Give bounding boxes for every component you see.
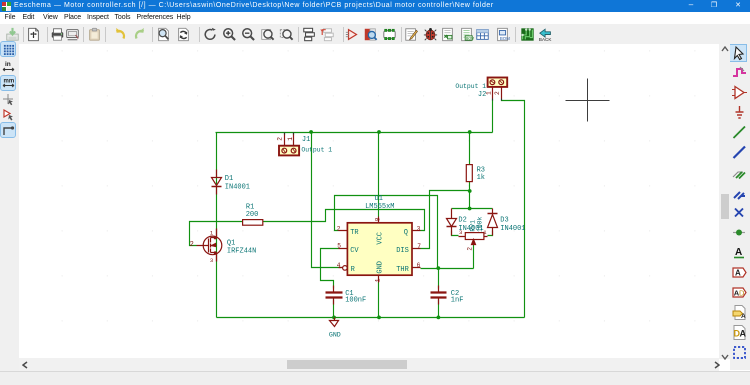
svg-text:2: 2 <box>466 247 473 251</box>
junction D2/D3 rail <box>468 207 472 211</box>
wire C2 branch <box>438 269 440 318</box>
svg-text:2: 2 <box>494 91 501 95</box>
junction R3 bottom <box>468 189 472 193</box>
wire right riser to J2 pin2 <box>502 100 525 318</box>
svg-text:GND: GND <box>377 261 385 274</box>
wire D3 bottom to pot <box>488 231 493 236</box>
svg-text:2: 2 <box>276 137 283 141</box>
diode D2 <box>451 209 453 236</box>
diode D3 <box>492 209 494 236</box>
wire VCC top rail <box>216 132 493 134</box>
wire D2/D3 top rail <box>452 208 493 210</box>
svg-text:1nF: 1nF <box>451 296 464 304</box>
svg-text:LM555xM: LM555xM <box>365 203 394 211</box>
svg-text:5: 5 <box>337 242 341 249</box>
svg-text:Output 1: Output 1 <box>301 146 332 153</box>
canvas <box>19 44 719 358</box>
svg-text:mm: mm <box>4 79 15 85</box>
svg-text:6: 6 <box>417 262 421 269</box>
connector J2 body <box>488 78 508 87</box>
crosshair cursor <box>566 79 610 122</box>
svg-text:2: 2 <box>190 241 194 249</box>
wire R3 branch <box>469 133 471 209</box>
op IC U1 body <box>347 223 412 275</box>
svg-text:3: 3 <box>417 226 421 233</box>
svg-text:DIS: DIS <box>396 247 409 255</box>
svg-text:D: D <box>739 288 745 297</box>
junction GND pin rail <box>377 316 381 320</box>
wire TR to THR junction <box>335 196 438 269</box>
junction C2 ground <box>437 316 441 320</box>
U1 reset bubble <box>343 266 348 271</box>
svg-text:R3: R3 <box>477 166 485 174</box>
connector J2 pins <box>493 87 502 99</box>
wire Q out to R1 <box>263 210 425 231</box>
wire VCC drop to pin8 <box>378 133 380 217</box>
svg-text:D1: D1 <box>225 175 233 183</box>
scrollbars / status <box>719 44 730 359</box>
U1 pin stubs <box>339 217 421 283</box>
junction top rail x469.7 <box>468 130 472 134</box>
svg-text:1k: 1k <box>477 174 485 182</box>
wire THR to pot wiper <box>421 244 474 269</box>
menu bar <box>0 12 750 24</box>
svg-text:4: 4 <box>337 262 341 269</box>
svg-text:7: 7 <box>417 243 421 250</box>
resistor R3 <box>466 165 472 182</box>
capacitor C1 <box>333 286 335 305</box>
svg-text:U1: U1 <box>375 195 383 203</box>
svg-text:A: A <box>735 268 741 277</box>
svg-text:GND: GND <box>329 331 341 338</box>
title bar <box>0 0 750 12</box>
power symbol GND <box>330 318 339 327</box>
transistor Q1 <box>203 236 222 255</box>
svg-text:BOM: BOM <box>466 36 474 40</box>
capacitor C2 <box>438 286 440 305</box>
junction C1 ground <box>332 316 336 320</box>
svg-text:D3: D3 <box>500 217 508 225</box>
left toolbar <box>0 44 19 371</box>
connector J1 body <box>279 146 299 156</box>
top toolbar <box>0 24 750 45</box>
svg-text:J1: J1 <box>302 136 310 144</box>
svg-text:Q: Q <box>404 229 408 237</box>
svg-text:IN4001: IN4001 <box>500 225 525 233</box>
resistor R1 <box>243 220 263 226</box>
wire DIS to R3 bottom <box>421 191 470 249</box>
teal labels <box>225 83 526 338</box>
svg-text:Q1: Q1 <box>227 240 235 248</box>
svg-text:THR: THR <box>396 266 409 274</box>
wire CV to C1 <box>321 249 339 289</box>
svg-text:BACK: BACK <box>538 37 550 42</box>
junction top rail x311 <box>309 130 313 134</box>
wire GND pin to rail <box>378 283 380 318</box>
svg-text:2: 2 <box>337 226 341 233</box>
svg-text:Output 1: Output 1 <box>455 83 486 90</box>
svg-text:3: 3 <box>210 257 213 264</box>
pin end ticks <box>285 99 502 135</box>
wire D2 bottom to pot <box>452 231 459 236</box>
svg-text:1: 1 <box>374 278 381 282</box>
svg-text:100nF: 100nF <box>345 296 366 304</box>
diode D1 <box>216 170 218 195</box>
wire R1 to gate <box>190 222 243 246</box>
svg-text:TR: TR <box>350 229 359 237</box>
svg-text:A: A <box>741 313 746 320</box>
svg-text:8: 8 <box>374 217 381 221</box>
svg-text:3: 3 <box>459 229 462 236</box>
svg-text:A: A <box>740 328 747 338</box>
svg-text:200: 200 <box>246 211 259 219</box>
wire reset drop x311 to pin4 <box>312 133 342 268</box>
potentiometer RV1 <box>465 233 484 240</box>
right toolbar <box>730 44 750 370</box>
wire J2 pin1 riser <box>492 100 494 133</box>
svg-text:A: A <box>735 247 742 258</box>
svg-text:CV: CV <box>350 247 359 255</box>
svg-text:D2: D2 <box>458 217 466 225</box>
svg-text:1: 1 <box>287 137 294 141</box>
svg-text:BOM: BOM <box>499 36 509 41</box>
wire left drop (D1/Q1 branch) <box>216 133 218 318</box>
wire C1 to ground rail <box>333 300 335 318</box>
junction THR node <box>436 266 440 270</box>
svg-text:IRFZ44N: IRFZ44N <box>227 248 256 256</box>
red pin numbers <box>190 91 502 282</box>
connector J1 pins <box>285 134 294 146</box>
wire bottom ground rail <box>217 317 525 319</box>
svg-text:1: 1 <box>486 91 493 95</box>
svg-text:in: in <box>5 61 11 68</box>
svg-text:IN4001: IN4001 <box>225 184 250 192</box>
svg-text:VCC: VCC <box>377 232 385 245</box>
junction top rail x379 <box>377 130 381 134</box>
